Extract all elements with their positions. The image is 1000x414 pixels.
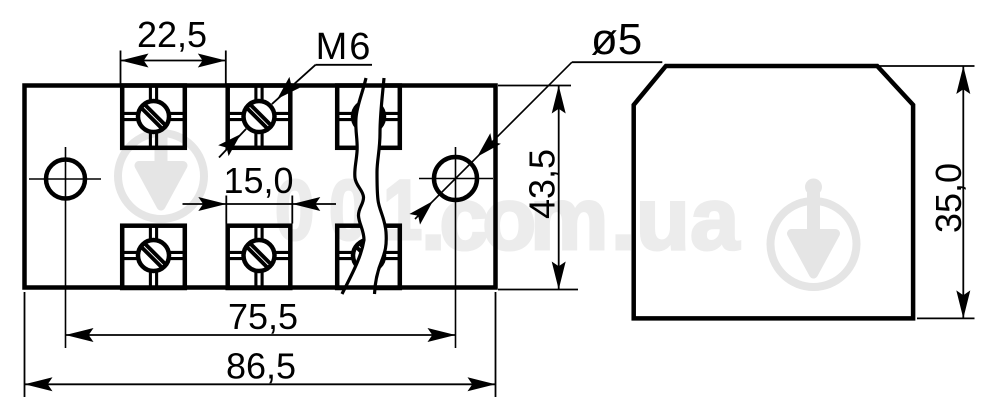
dimension 43,5 bbox=[498, 86, 578, 290]
mount hole left bbox=[29, 147, 101, 348]
svg-text:86,5: 86,5 bbox=[226, 346, 296, 387]
mount hole right bbox=[419, 147, 493, 348]
dimension 86,5 bbox=[25, 292, 496, 397]
break band white fill bbox=[342, 78, 386, 294]
side view body outline bbox=[634, 66, 913, 318]
svg-text:35,0: 35,0 bbox=[928, 163, 969, 233]
screw terminal B2 bottom-middle bbox=[228, 226, 291, 288]
watermark logo left bbox=[118, 111, 204, 220]
break wavy line left bbox=[342, 78, 366, 294]
dimension 22,5 bbox=[121, 14, 226, 87]
svg-text:.com: .com bbox=[421, 169, 603, 268]
screw terminal B1 bottom-left bbox=[122, 226, 185, 288]
label ø5 with leader bbox=[409, 15, 662, 225]
svg-text:43,5: 43,5 bbox=[522, 149, 563, 219]
dimension 75,5 bbox=[66, 296, 456, 342]
break wavy line right bbox=[375, 78, 387, 294]
screw terminal A2 top-middle bbox=[228, 86, 291, 148]
body outline left view bbox=[25, 86, 496, 288]
watermark logo right bbox=[771, 179, 857, 288]
svg-text:15,0: 15,0 bbox=[223, 160, 293, 201]
svg-text:.ua: .ua bbox=[611, 169, 740, 268]
label M6 with leader bbox=[218, 26, 372, 158]
dimension 15,0 bbox=[183, 160, 337, 224]
screw terminal B3 bottom-right bbox=[337, 226, 400, 288]
svg-text:22,5: 22,5 bbox=[137, 14, 207, 55]
svg-text:ø5: ø5 bbox=[591, 15, 642, 64]
svg-text:M6: M6 bbox=[316, 26, 373, 68]
svg-text:75,5: 75,5 bbox=[228, 296, 298, 337]
dimension 35,0 bbox=[879, 66, 975, 318]
screw terminal A3 top-right bbox=[337, 86, 400, 148]
screw terminal A1 top-left bbox=[122, 86, 185, 148]
